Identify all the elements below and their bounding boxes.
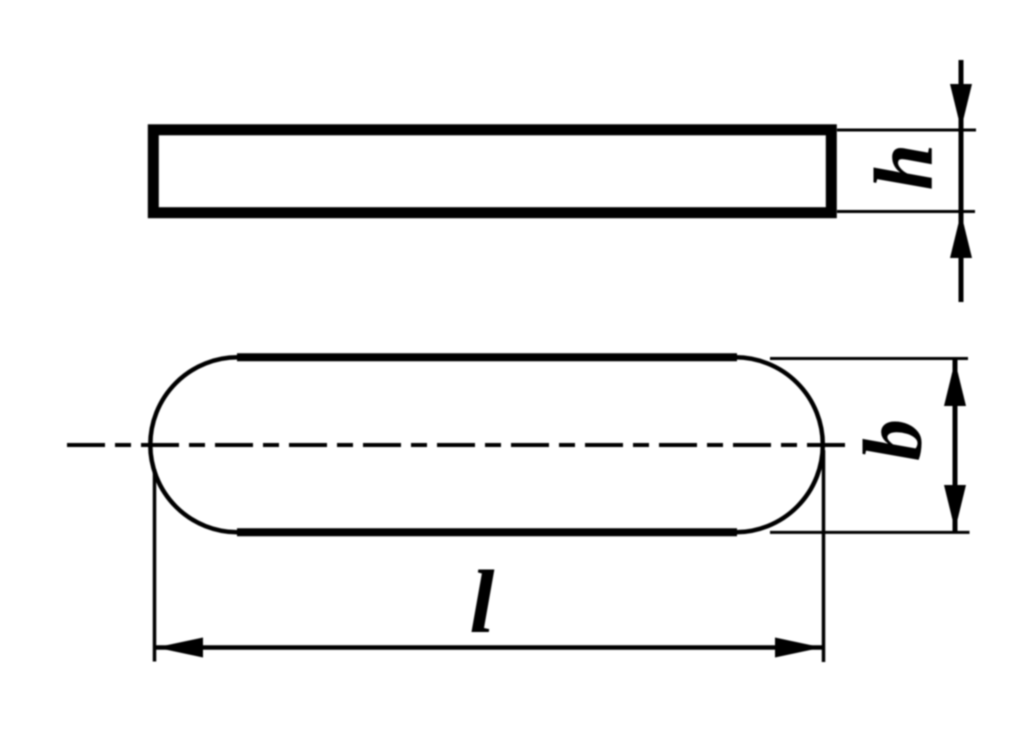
extension line bottom of b xyxy=(770,531,970,534)
dimension line h xyxy=(959,60,964,302)
stadium left arc xyxy=(150,357,238,532)
arrow h bottom (pointing up) xyxy=(950,213,972,258)
key side view rectangle xyxy=(153,130,831,213)
stadium bottom edge xyxy=(237,528,737,536)
centerline xyxy=(67,443,845,447)
svg-text:h: h xyxy=(857,144,950,191)
extension line top of b xyxy=(770,357,968,360)
key top view stadium: top edge xyxy=(237,353,737,361)
arrow h top (pointing down) xyxy=(950,84,972,129)
svg-text:l: l xyxy=(469,553,494,652)
dimension line b xyxy=(953,359,958,532)
arrow b bottom (pointing down) xyxy=(944,485,966,530)
extension line right of l xyxy=(822,450,826,662)
extension line bottom of h xyxy=(837,210,975,213)
arrow l left (pointing left) xyxy=(156,638,203,658)
dimension line l xyxy=(155,645,824,650)
arrow b top (pointing up) xyxy=(944,361,966,406)
arrow l right (pointing right) xyxy=(775,638,822,658)
extension line top of h xyxy=(837,129,976,132)
stadium right arc xyxy=(735,357,822,532)
svg-text:b: b xyxy=(846,419,939,461)
extension line left of l xyxy=(153,469,157,662)
